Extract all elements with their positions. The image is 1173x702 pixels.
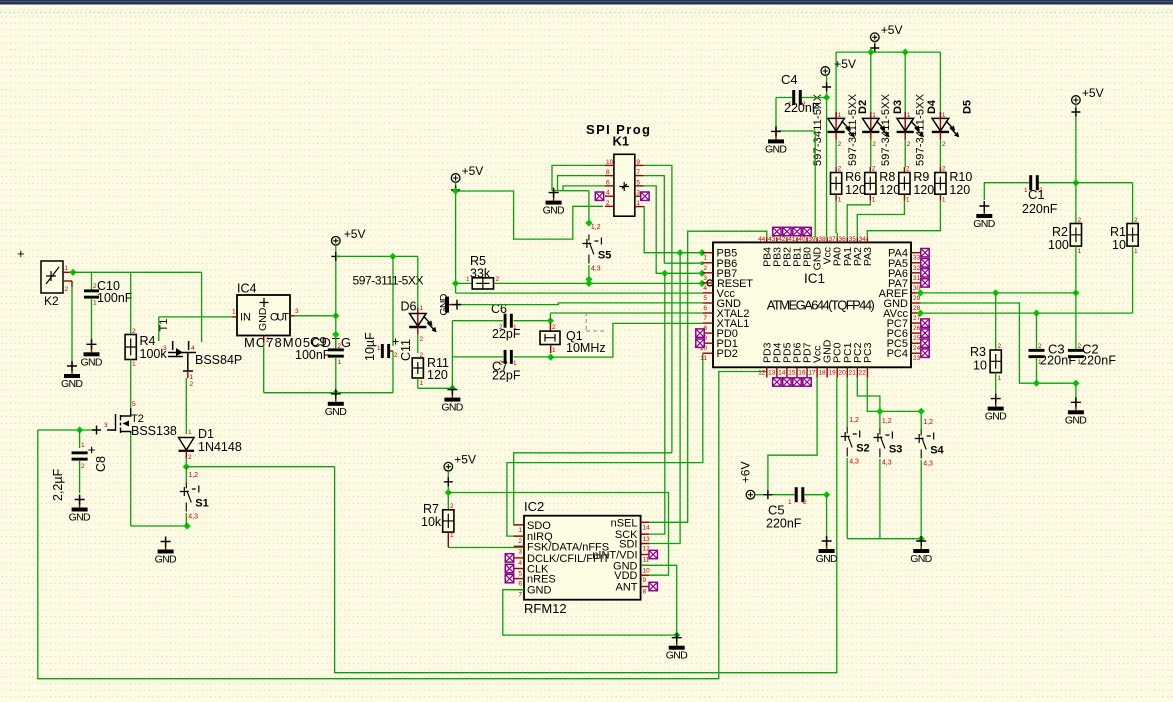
wire to R2	[1075, 183, 1077, 224]
svg-text:1: 1	[788, 499, 792, 506]
svg-text:20: 20	[839, 370, 847, 377]
svg-text:1: 1	[93, 300, 97, 307]
svg-text:BSS138: BSS138	[131, 424, 177, 438]
resistor R9 (120)	[899, 166, 935, 204]
wire ground rail under S1	[131, 525, 187, 527]
svg-text:10MHz: 10MHz	[566, 341, 606, 355]
svg-text:+6V: +6V	[739, 462, 753, 484]
IC1 unconnected pins left (PD0,PD1)	[696, 329, 704, 337]
wire R6 to PA0	[835, 201, 837, 234]
+5V supply at R7	[444, 453, 476, 471]
svg-text:+: +	[17, 246, 25, 261]
svg-text:C5: C5	[768, 503, 785, 518]
wire crystal bottom to XTAL1	[551, 323, 703, 357]
wire R10 to PA3	[867, 201, 940, 238]
svg-text:4,3: 4,3	[923, 461, 933, 468]
svg-text:13: 13	[643, 536, 651, 543]
wire switch ground rail	[847, 538, 921, 540]
svg-text:R7: R7	[423, 502, 439, 516]
svg-text:10µF: 10µF	[363, 332, 377, 361]
svg-text:4: 4	[703, 285, 707, 292]
svg-text:2: 2	[802, 101, 806, 108]
wire AVcc row	[921, 312, 1133, 314]
svg-text:2: 2	[93, 283, 97, 290]
svg-text:33: 33	[913, 255, 921, 262]
svg-text:32: 32	[913, 265, 921, 272]
wire C4 to ground	[776, 98, 815, 132]
svg-text:23: 23	[913, 355, 921, 362]
svg-text:2: 2	[499, 360, 503, 367]
connector K2	[41, 261, 63, 308]
wire C5 to ground	[826, 495, 828, 540]
svg-text:D3: D3	[892, 100, 904, 114]
wire nSEL net PB4 to IC2	[641, 231, 767, 522]
svg-text:R4: R4	[140, 334, 156, 348]
wire XTAL2 row	[550, 312, 702, 314]
wire rail down to T1 source	[201, 272, 203, 342]
svg-text:D4: D4	[926, 99, 938, 114]
svg-text:2: 2	[872, 166, 876, 173]
svg-text:+5V: +5V	[344, 227, 366, 241]
svg-text:597-3411-5XX: 597-3411-5XX	[880, 93, 892, 166]
svg-text:100nF: 100nF	[97, 291, 133, 305]
svg-text:2: 2	[518, 538, 522, 545]
svg-text:C4: C4	[781, 72, 798, 87]
svg-text:GND: GND	[81, 356, 103, 368]
svg-text:3: 3	[703, 275, 707, 282]
wire S4 to ground rail	[920, 460, 922, 539]
capacitor C4 (220nF)	[781, 72, 820, 115]
ground (rotated)	[438, 293, 462, 315]
svg-text:10k: 10k	[421, 515, 442, 529]
wire R11 to ground	[417, 378, 419, 388]
switch S5	[582, 224, 611, 273]
IC2 pin stubs	[514, 522, 649, 589]
node row marker dots	[0, 12, 1173, 14]
svg-text:nSEL: nSEL	[611, 517, 638, 529]
wires K1 ground pins to GND	[552, 165, 605, 190]
IC1 unconnected pins bottom (PD4..PD7)	[773, 378, 781, 386]
svg-text:4,3: 4,3	[882, 460, 892, 467]
svg-text:1,2: 1,2	[882, 418, 892, 425]
svg-text:+5V: +5V	[881, 23, 903, 37]
svg-text:K1: K1	[613, 134, 630, 149]
svg-text:2: 2	[496, 276, 500, 283]
svg-text:2: 2	[190, 381, 194, 388]
wire S1 bottom	[185, 513, 187, 526]
ground below C9	[325, 389, 347, 418]
wire big outer loop (PD3 net)	[38, 368, 767, 679]
svg-text:GND: GND	[910, 553, 932, 565]
svg-text:D5: D5	[961, 100, 973, 114]
svg-text:21: 21	[849, 370, 857, 377]
svg-text:2: 2	[338, 343, 342, 350]
svg-text:2: 2	[65, 286, 69, 293]
wire rail to D6	[417, 256, 419, 313]
svg-text:9: 9	[643, 577, 647, 584]
svg-text:C11: C11	[399, 339, 413, 361]
wire GND row to IC1	[461, 303, 703, 305]
wire GND row right	[921, 303, 1076, 383]
svg-text:120: 120	[845, 183, 866, 197]
+5V supply near K1	[451, 164, 483, 182]
ground below R11	[441, 385, 463, 414]
IC2 pin labels	[518, 517, 650, 598]
svg-text:GND: GND	[985, 411, 1007, 423]
LED D3	[847, 52, 904, 167]
svg-text:1: 1	[906, 197, 910, 204]
svg-text:2: 2	[606, 200, 610, 207]
svg-text:7: 7	[703, 315, 707, 322]
svg-text:11: 11	[700, 355, 707, 362]
wire R9 to PA2	[857, 201, 904, 238]
svg-text:100: 100	[1048, 238, 1069, 252]
svg-text:8: 8	[606, 169, 610, 176]
svg-text:R1: R1	[1110, 225, 1126, 239]
svg-text:1: 1	[1024, 187, 1028, 194]
svg-text:16: 16	[798, 370, 806, 377]
svg-text:220nF: 220nF	[1022, 202, 1058, 216]
svg-text:1: 1	[838, 197, 842, 204]
svg-text:1: 1	[998, 375, 1002, 382]
unconnected pin K1.3	[641, 192, 649, 200]
wire crystal top riser	[549, 313, 551, 321]
svg-text:GND: GND	[257, 307, 269, 331]
wire to R5	[456, 282, 473, 284]
IC1 unconnected pins top (PB3..PB0)	[773, 227, 781, 235]
svg-text:R3: R3	[970, 345, 986, 359]
wire +5V to IC2 VDD	[448, 493, 668, 576]
svg-text:R6: R6	[845, 170, 861, 184]
svg-text:31: 31	[913, 275, 921, 282]
IC IC2 (RFM12)	[524, 499, 641, 616]
svg-text:PC3: PC3	[862, 342, 874, 363]
svg-text:37: 37	[828, 236, 836, 243]
wire rail to C11	[392, 256, 394, 346]
svg-text:2: 2	[1039, 187, 1043, 194]
svg-text:5: 5	[132, 401, 136, 408]
wire K2+ rail	[72, 271, 202, 273]
ground below C5	[816, 536, 838, 565]
svg-text:GND: GND	[155, 554, 177, 566]
svg-text:36: 36	[839, 236, 847, 243]
svg-text:40: 40	[798, 236, 806, 243]
wire R1 to AVcc row	[1132, 246, 1134, 313]
svg-text:IC1: IC1	[804, 271, 825, 286]
svg-text:1: 1	[420, 305, 424, 312]
svg-text:17: 17	[808, 370, 816, 377]
svg-text:25: 25	[913, 335, 921, 342]
ground below S1	[155, 537, 177, 566]
svg-text:3: 3	[295, 308, 299, 315]
svg-text:18: 18	[818, 370, 826, 377]
svg-text:+5V: +5V	[1082, 86, 1104, 100]
IC1 pin stubs	[703, 237, 921, 377]
svg-text:3: 3	[636, 190, 640, 197]
svg-text:1: 1	[190, 374, 194, 381]
svg-text:GND: GND	[69, 512, 91, 524]
wire +5V to IC1 Vcc pin38	[826, 75, 828, 237]
IC IC1 (ATMEGA644 TQFP44)	[713, 242, 911, 367]
wire R7 to IC2 FSK pin	[448, 547, 524, 549]
svg-text:1: 1	[552, 347, 556, 354]
svg-text:1N4148: 1N4148	[198, 440, 242, 454]
unconnected pin K1.4	[595, 192, 603, 200]
ground below C8	[69, 495, 91, 524]
svg-text:2: 2	[499, 324, 503, 331]
svg-text:3: 3	[518, 548, 522, 555]
svg-text:GND: GND	[438, 293, 450, 315]
wire Vcc row to IC1	[456, 292, 703, 294]
svg-text:R2: R2	[1052, 225, 1068, 239]
svg-text:597-3111-5XX: 597-3111-5XX	[353, 274, 424, 288]
svg-text:1: 1	[450, 532, 454, 539]
IC1 top pin labels	[758, 236, 874, 270]
svg-text:2: 2	[803, 499, 807, 506]
svg-text:1: 1	[788, 101, 792, 108]
wire PC2 to S3	[857, 378, 880, 430]
+5V supply above LEDs	[871, 23, 903, 41]
svg-text:2: 2	[872, 141, 876, 148]
wire IC2 GND right	[641, 565, 677, 635]
svg-text:GND: GND	[1065, 414, 1087, 426]
wire RESET row	[494, 282, 703, 284]
svg-text:3: 3	[163, 345, 167, 352]
svg-text:VDD: VDD	[614, 570, 637, 582]
IC1 left pin labels	[700, 248, 754, 363]
wire T1 drain to IC4 IN	[159, 316, 232, 318]
svg-text:1: 1	[636, 200, 640, 207]
svg-text:4: 4	[518, 560, 522, 567]
svg-text:5: 5	[703, 295, 707, 302]
wire C3 to ground rail	[1036, 358, 1038, 384]
svg-text:1,2: 1,2	[849, 417, 859, 424]
svg-text:ANT: ANT	[616, 582, 638, 594]
svg-text:IC4: IC4	[237, 282, 257, 296]
svg-text:14: 14	[778, 370, 786, 377]
svg-text:D6: D6	[401, 300, 417, 314]
svg-text:22: 22	[859, 370, 867, 377]
svg-text:C9: C9	[310, 334, 327, 349]
wire C1 left to ground	[984, 183, 1029, 200]
svg-text:12: 12	[758, 370, 766, 377]
ground below C2	[1065, 397, 1087, 426]
ground below R3	[985, 394, 1007, 423]
svg-text:33k: 33k	[470, 267, 491, 281]
svg-text:10: 10	[973, 359, 987, 373]
wire D1 cathode to node	[185, 458, 187, 467]
svg-text:1: 1	[513, 360, 517, 367]
svg-text:29: 29	[913, 295, 921, 302]
svg-text:597-3411-5XX: 597-3411-5XX	[915, 93, 927, 166]
svg-text:2: 2	[998, 343, 1002, 350]
switch S2	[841, 417, 870, 466]
border frame top bar	[0, 0, 1173, 5]
svg-text:15: 15	[788, 370, 796, 377]
svg-text:38: 38	[818, 236, 826, 243]
svg-text:PA3: PA3	[862, 247, 874, 266]
svg-text:7: 7	[518, 592, 522, 599]
wire +5V rail to D6 column	[336, 255, 418, 257]
svg-text:PC4: PC4	[887, 348, 908, 360]
svg-text:BSS84P: BSS84P	[195, 353, 242, 367]
svg-text:120: 120	[913, 183, 934, 197]
wire C6/C7 ground column	[451, 321, 453, 389]
svg-text:GND: GND	[527, 585, 552, 597]
LED D4	[880, 52, 938, 167]
svg-text:2: 2	[838, 141, 842, 148]
transistor T2 (BSS138)	[104, 401, 177, 438]
wire ground rail under C9/C11	[264, 392, 393, 394]
svg-text:2: 2	[942, 166, 946, 173]
svg-text:GND: GND	[816, 553, 838, 565]
connector K1 (SPI Prog)	[586, 122, 650, 216]
wire T2 source down	[130, 433, 132, 526]
IC2 unconnected pins left	[505, 554, 513, 562]
wire IC4 OUT to +5V node	[295, 315, 336, 317]
wire T1 drain to D1 anode	[185, 378, 187, 434]
svg-text:2: 2	[188, 454, 192, 461]
svg-text:1: 1	[338, 359, 342, 366]
svg-text:220nF: 220nF	[766, 517, 802, 531]
svg-text:3: 3	[104, 422, 108, 429]
wire R8 to PA1	[847, 201, 870, 238]
svg-text:5: 5	[636, 179, 640, 186]
wire C7 left	[452, 356, 503, 358]
wire inner loop to IC1 PC0	[335, 378, 837, 673]
svg-text:120: 120	[427, 368, 448, 382]
svg-text:1: 1	[1134, 248, 1138, 255]
svg-text:GND: GND	[441, 402, 463, 414]
svg-text:ATMEGA644(TQFP44): ATMEGA644(TQFP44)	[767, 298, 875, 313]
wire +5V right column	[1075, 104, 1077, 182]
svg-text:C8: C8	[94, 456, 108, 472]
wire +5V to R1	[1076, 182, 1133, 184]
svg-text:13: 13	[768, 370, 776, 377]
svg-text:1: 1	[703, 255, 707, 262]
wire S2 to ground rail	[846, 458, 848, 539]
capacitor C11 (10uF)	[363, 332, 413, 361]
wire D6 to R11	[417, 334, 419, 353]
svg-text:10: 10	[1112, 238, 1126, 252]
svg-text:2: 2	[906, 166, 910, 173]
resistor R8 (120)	[865, 166, 901, 204]
+5V supply above IC4	[332, 227, 366, 245]
wire C1 right	[1039, 182, 1076, 184]
wire +6V to C5	[755, 494, 797, 496]
svg-text:4: 4	[606, 190, 610, 197]
wire junction to inner loop	[186, 466, 334, 468]
svg-text:597-3111-5XX: 597-3111-5XX	[847, 93, 859, 166]
wire R4 to T2 drain	[130, 360, 132, 409]
svg-text:S5: S5	[598, 250, 611, 262]
svg-text:OUT: OUT	[270, 312, 289, 324]
switch S3	[873, 418, 902, 467]
svg-text:R9: R9	[913, 170, 929, 184]
svg-text:44: 44	[758, 236, 766, 243]
resistor R10 (120)	[935, 166, 973, 204]
wire IC4 GND down	[263, 343, 265, 392]
wire C4 left	[776, 97, 793, 99]
svg-text:2: 2	[838, 166, 842, 173]
svg-text:4,3: 4,3	[849, 459, 859, 466]
wire SDI net PB5 to IC2	[641, 253, 680, 544]
svg-text:6: 6	[703, 305, 707, 312]
wire +5V column through C9	[335, 245, 337, 349]
svg-text:10: 10	[606, 159, 614, 166]
svg-text:+5V: +5V	[834, 57, 856, 71]
svg-text:R8: R8	[879, 170, 895, 184]
svg-text:GND: GND	[325, 406, 347, 418]
wire +5V column to Vcc	[455, 182, 457, 293]
wire rail to R4	[130, 272, 132, 334]
wire R2 to C2 / AREF	[1075, 246, 1077, 349]
svg-text:6: 6	[606, 179, 610, 186]
+5V supply right	[1072, 86, 1104, 104]
svg-text:2: 2	[394, 352, 398, 359]
wire C10 top	[91, 272, 93, 290]
svg-text:SDO: SDO	[527, 520, 551, 532]
svg-text:1: 1	[1038, 359, 1042, 366]
wire AREF to R3	[995, 293, 997, 350]
wire K1 ground bus	[552, 190, 589, 192]
svg-text:4,3: 4,3	[591, 266, 601, 273]
svg-text:35: 35	[849, 236, 857, 243]
wire C5 right	[804, 494, 827, 496]
svg-text:4,3: 4,3	[188, 514, 198, 521]
svg-text:220nF: 220nF	[1080, 354, 1116, 368]
wire PB6 row	[664, 262, 702, 264]
switch S4	[915, 419, 945, 468]
resistor R6 (120)	[831, 166, 867, 204]
capacitor C1 (220nF)	[1022, 175, 1058, 216]
svg-text:24: 24	[913, 345, 921, 352]
svg-text:GND: GND	[765, 143, 787, 155]
wire ground bus to S5	[588, 191, 590, 224]
capacitor C9 (100nF)	[295, 334, 344, 362]
wire K1.9 MISO to SDO	[644, 165, 672, 452]
svg-text:14: 14	[643, 524, 651, 531]
wire AVcc to C3	[1036, 313, 1038, 349]
svg-text:1,2: 1,2	[923, 419, 933, 426]
svg-text:42: 42	[778, 236, 786, 243]
wire +5V drop	[874, 42, 876, 53]
wire +5V to R7	[447, 471, 449, 510]
svg-text:120: 120	[879, 183, 900, 197]
svg-text:10: 10	[643, 567, 651, 574]
wire net BATT+ from K2	[69, 269, 76, 276]
svg-text:S2: S2	[856, 443, 869, 455]
svg-text:5: 5	[518, 571, 522, 578]
svg-text:1: 1	[232, 309, 236, 316]
wire down to C8	[79, 430, 81, 448]
svg-text:27: 27	[913, 315, 921, 322]
wire to IC1 GND pin39	[814, 131, 816, 237]
svg-text:1: 1	[513, 324, 517, 331]
svg-text:IC2: IC2	[524, 499, 544, 514]
svg-text:GND: GND	[61, 378, 83, 390]
svg-text:41: 41	[788, 236, 796, 243]
wire T1 gate riser	[158, 317, 160, 341]
wire C7 to crystal bottom	[514, 356, 551, 358]
switch S1	[180, 472, 209, 521]
svg-text:1: 1	[420, 380, 424, 387]
svg-text:GND: GND	[543, 205, 565, 217]
svg-text:1: 1	[518, 527, 522, 534]
wire +5V to K1 pin 2	[456, 191, 603, 239]
wire PC3 to S4	[867, 378, 921, 431]
wire C8 to ground	[79, 460, 81, 493]
